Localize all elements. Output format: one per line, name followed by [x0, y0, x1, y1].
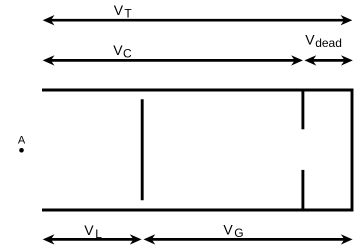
dimension arrow VT (double-headed) [43, 15, 353, 25]
svg-text:L: L [95, 227, 102, 241]
label VC [113, 42, 132, 61]
tube bottom wall [42, 209, 353, 212]
svg-text:V: V [305, 32, 315, 48]
dimension arrow VG (double-headed) [144, 234, 353, 244]
svg-text:V: V [113, 42, 123, 58]
svg-text:V: V [84, 222, 94, 238]
svg-text:C: C [123, 47, 132, 61]
right plate lower segment [301, 170, 304, 210]
left plate (grid) [141, 99, 144, 200]
label VG [223, 222, 243, 241]
dimension arrow VL (double-headed) [43, 234, 142, 244]
label VL [84, 222, 102, 241]
tube top wall [42, 89, 353, 92]
tube right end wall [351, 89, 354, 212]
svg-text:G: G [234, 226, 243, 240]
label VT [114, 2, 133, 21]
dimension arrow VC (double-headed) [43, 55, 303, 65]
svg-text:V: V [114, 2, 124, 18]
right plate upper segment [301, 89, 304, 129]
node A dot [19, 148, 24, 153]
svg-text:V: V [223, 222, 233, 238]
label Vdead [305, 32, 342, 50]
svg-text:T: T [124, 7, 132, 21]
svg-text:A: A [18, 135, 26, 147]
dimension arrow Vdead (double-headed) [305, 55, 353, 65]
svg-text:dead: dead [315, 36, 342, 50]
